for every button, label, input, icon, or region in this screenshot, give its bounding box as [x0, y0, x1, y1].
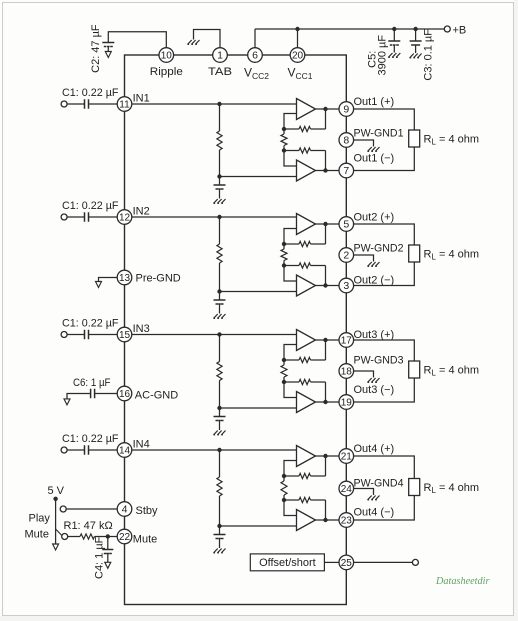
svg-text:1: 1	[217, 50, 223, 62]
ground below NFB cap (ch2)	[214, 314, 226, 318]
wire load bottom (ch4)	[354, 496, 415, 521]
capacitor NFB to ground (ch4)	[219, 526, 221, 535]
wire top amp inverting input (ch2)	[284, 229, 297, 245]
IC package outline U1	[125, 55, 347, 605]
capacitor NFB to ground (ch1)	[219, 177, 221, 186]
op-amp ch3 inverting	[297, 392, 316, 413]
wire input line (ch3)	[132, 334, 297, 336]
resistor RL load (ch3)	[409, 361, 420, 378]
svg-text:Pre-GND: Pre-GND	[136, 273, 181, 285]
junction node C3 tap	[413, 27, 417, 31]
ground arrow below switch	[53, 544, 59, 550]
wire C4 lead	[107, 537, 109, 550]
resistor RL load (ch4)	[409, 479, 420, 496]
svg-text:C1: 0.22 µF: C1: 0.22 µF	[62, 200, 119, 212]
wire C3 lead	[415, 29, 417, 41]
pin 1 TAB	[213, 48, 228, 63]
ground below NFB cap (ch3)	[214, 431, 226, 435]
wire top amp inverting input (ch3)	[284, 345, 297, 361]
junction input column (ch2)	[217, 215, 221, 219]
wire bottom amp output (ch1)	[316, 170, 340, 172]
pin 10 Ripple	[159, 48, 174, 63]
switch lever	[56, 529, 62, 535]
svg-text:24: 24	[341, 484, 353, 495]
wire top amp output (ch4)	[316, 455, 340, 457]
svg-text:3: 3	[343, 280, 349, 292]
resistor input bias (ch1)	[219, 104, 221, 131]
wire bottom amp output (ch4)	[316, 519, 340, 521]
svg-text:14: 14	[119, 446, 131, 457]
op-amp ch2 non-inverting	[297, 214, 316, 235]
wire input terminal to C1 (ch3)	[67, 334, 84, 336]
resistor feedback top (ch2)	[284, 243, 299, 245]
pin 17 Out3+	[339, 333, 354, 348]
wire feedback right top (ch1)	[325, 109, 327, 129]
pin 18 PW-GND3	[339, 364, 354, 379]
resistor divider centre (ch2)	[283, 244, 285, 249]
wire top amp output (ch3)	[316, 339, 340, 341]
junction feedback left top (ch2)	[282, 242, 286, 246]
ground arrow below C4	[105, 562, 111, 568]
junction 5V node	[53, 497, 57, 501]
wire pin 2 to ground	[354, 255, 374, 262]
svg-text:C1: 0.22 µF: C1: 0.22 µF	[62, 433, 119, 445]
capacitor C6 1uF	[90, 389, 92, 399]
op-amp ch4 non-inverting	[297, 446, 316, 467]
wire pin 24 to ground	[354, 489, 374, 496]
wire C1 to pin (ch4)	[89, 449, 118, 451]
wire pin 25 to terminal	[354, 561, 413, 563]
svg-text:Out3 (+): Out3 (+)	[354, 329, 395, 341]
wire AC-GND to C6	[95, 393, 118, 395]
svg-text:Datasheetdir: Datasheetdir	[435, 575, 490, 587]
resistor input bias (ch3)	[219, 335, 221, 362]
wire top amp output (ch2)	[316, 223, 340, 225]
resistor feedback top (ch4)	[284, 475, 299, 477]
capacitor C1 coupling (ch3)	[84, 330, 86, 340]
wire bottom amp inverting input (ch4)	[284, 500, 297, 516]
svg-text:6: 6	[252, 50, 258, 62]
svg-text:PW-GND2: PW-GND2	[354, 243, 404, 255]
svg-text:IN4: IN4	[133, 439, 150, 451]
junction bottom output (ch2)	[323, 283, 327, 287]
pin 9 Out1+	[339, 102, 354, 117]
wire pin 1 TAB to ground	[194, 30, 221, 49]
svg-text:+B: +B	[453, 25, 467, 37]
wire feedback right top (ch2)	[325, 224, 327, 244]
wire R1 to pin 22	[95, 536, 118, 538]
pin 3 Out2-	[339, 278, 354, 293]
svg-text:Mute: Mute	[133, 534, 157, 546]
wire bottom amp inverting input (ch1)	[284, 151, 297, 167]
resistor input bias (ch2)	[219, 217, 221, 244]
svg-text:3900 µF: 3900 µF	[376, 35, 388, 76]
wire pin 8 to ground	[354, 140, 374, 147]
svg-text:C4: 1 µF: C4: 1 µF	[94, 536, 106, 579]
svg-text:16: 16	[119, 389, 131, 400]
wire C6 to ground arrow	[67, 394, 91, 399]
resistor RL load (ch2)	[409, 245, 420, 262]
resistor feedback top (ch1)	[284, 128, 299, 130]
svg-text:C1: 0.22 µF: C1: 0.22 µF	[62, 87, 119, 99]
junction input column (ch3)	[217, 332, 221, 336]
svg-text:Out2 (+): Out2 (+)	[354, 212, 395, 224]
junction column bottom (ch4)	[217, 524, 221, 528]
capacitor C2 47uF	[102, 42, 114, 44]
svg-text:IN2: IN2	[133, 206, 150, 218]
wire Offset/short to pin 25	[324, 561, 339, 563]
junction feedback left bottom (ch4)	[282, 498, 286, 502]
pin 22 Mute	[117, 529, 132, 544]
wire bottom amp inverting input (ch2)	[284, 266, 297, 282]
wire top amp inverting input (ch4)	[284, 461, 297, 477]
junction input column (ch1)	[217, 102, 221, 106]
wire load top (ch3)	[354, 340, 415, 361]
switch contact Mute	[62, 534, 68, 540]
terminal offset output	[412, 559, 418, 565]
svg-text:AC-GND: AC-GND	[135, 390, 178, 402]
svg-text:17: 17	[341, 336, 353, 347]
svg-text:Out1 (−): Out1 (−)	[354, 153, 395, 165]
wire Play contact to pin 4	[66, 508, 117, 510]
junction node C5 tap	[392, 27, 396, 31]
op-amp ch4 inverting	[297, 510, 316, 531]
wire C1 to pin (ch2)	[89, 216, 118, 218]
svg-text:23: 23	[341, 516, 353, 527]
capacitor C5 3900uF	[388, 40, 400, 42]
input terminal IN2	[61, 214, 67, 220]
wire load bottom (ch3)	[354, 378, 415, 402]
svg-text:Out2 (−): Out2 (−)	[354, 275, 395, 287]
wire load bottom (ch1)	[354, 147, 415, 171]
pin 11 IN1	[117, 97, 132, 112]
wire top amp output (ch1)	[316, 108, 340, 110]
wire load top (ch4)	[354, 456, 415, 479]
junction input column (ch4)	[217, 448, 221, 452]
svg-text:4: 4	[122, 504, 128, 516]
wire column to inverting amp input (ch2)	[220, 291, 297, 293]
svg-text:Offset/short: Offset/short	[259, 557, 316, 569]
wire input terminal to C1 (ch2)	[67, 216, 84, 218]
svg-text:25: 25	[341, 558, 353, 569]
wire load bottom (ch2)	[354, 262, 415, 286]
junction bottom output (ch1)	[323, 168, 327, 172]
svg-text:13: 13	[119, 273, 131, 284]
junction top output (ch2)	[323, 222, 327, 226]
svg-text:11: 11	[119, 100, 130, 111]
wire input terminal to C1 (ch1)	[67, 103, 84, 105]
wire column to inverting amp input (ch3)	[220, 407, 297, 409]
switch contact Play	[60, 506, 66, 512]
svg-text:Mute: Mute	[25, 529, 49, 541]
wire +B rail	[255, 28, 444, 30]
op-amp ch2 inverting	[297, 275, 316, 296]
wire input line (ch4)	[132, 449, 297, 451]
ground arrow below C2	[105, 52, 111, 58]
resistor input bias (ch4)	[219, 450, 221, 477]
pin 6 Vcc2	[248, 48, 263, 63]
ground at PW-GND2	[368, 262, 380, 266]
wire feedback right top (ch4)	[325, 456, 327, 476]
resistor feedback bottom (ch1)	[284, 150, 299, 152]
wire Vcc1 pin 20 to rail	[297, 29, 299, 48]
wire C1 to pin (ch1)	[89, 103, 118, 105]
resistor R1 47k	[80, 534, 95, 539]
wire column to inverting amp input (ch4)	[220, 525, 297, 527]
pin 23 Out4-	[339, 513, 354, 528]
svg-text:Stby: Stby	[136, 505, 159, 517]
junction feedback left bottom (ch3)	[282, 380, 286, 384]
svg-text:Out4 (−): Out4 (−)	[354, 507, 395, 519]
wire input line (ch1)	[132, 103, 297, 105]
ground below C5	[388, 53, 400, 57]
ground below NFB cap (ch1)	[214, 199, 226, 203]
input terminal IN3	[61, 332, 67, 338]
svg-text:IN1: IN1	[133, 93, 150, 105]
ground arrow at Pre-GND	[96, 282, 102, 288]
ground arrow at C6	[64, 399, 70, 405]
pin 13 Pre-GND	[117, 270, 132, 285]
wire C5 lead	[393, 29, 395, 41]
svg-text:22: 22	[119, 532, 131, 543]
ground at PW-GND4	[368, 496, 380, 500]
svg-text:PW-GND4: PW-GND4	[354, 478, 404, 490]
svg-text:18: 18	[341, 367, 353, 378]
wire top amp inverting input (ch1)	[284, 114, 297, 130]
resistor divider centre (ch1)	[283, 129, 285, 134]
junction top output (ch4)	[323, 454, 327, 458]
wire C1 to pin (ch3)	[89, 334, 118, 336]
capacitor C4 1uF	[102, 549, 113, 551]
svg-text:C3: 0.1 µF: C3: 0.1 µF	[422, 29, 434, 81]
resistor RL load (ch1)	[409, 130, 420, 147]
svg-text:15: 15	[119, 330, 131, 341]
svg-text:Out1 (+): Out1 (+)	[354, 96, 395, 108]
pin 4 Stby	[117, 502, 132, 517]
junction top output (ch3)	[323, 338, 327, 342]
wire Mute contact to R1	[68, 536, 80, 538]
ground below NFB cap (ch4)	[214, 549, 226, 553]
svg-text:C2: 47 µF: C2: 47 µF	[90, 24, 102, 73]
junction C4 tap	[106, 534, 110, 538]
junction column bottom (ch2)	[217, 289, 221, 293]
svg-text:C6: 1 µF: C6: 1 µF	[73, 377, 111, 389]
svg-text:20: 20	[292, 51, 304, 62]
terminal +B	[444, 26, 450, 32]
svg-text:9: 9	[343, 104, 349, 116]
svg-text:5: 5	[343, 219, 349, 231]
svg-text:PW-GND3: PW-GND3	[354, 354, 404, 366]
junction feedback left top (ch1)	[282, 127, 286, 131]
ground at PW-GND3	[368, 378, 380, 382]
wire 5V common	[55, 499, 57, 544]
capacitor C3 0.1uF	[410, 40, 422, 42]
junction bottom output (ch4)	[323, 518, 327, 522]
pin 7 Out1-	[339, 163, 354, 178]
junction above pin 20	[295, 27, 299, 31]
pin 21 Out4+	[339, 449, 354, 464]
junction bottom output (ch3)	[323, 400, 327, 404]
resistor divider centre (ch3)	[283, 360, 285, 365]
op-amp ch3 non-inverting	[297, 330, 316, 351]
junction feedback left top (ch3)	[282, 358, 286, 362]
junction column bottom (ch3)	[217, 406, 221, 410]
pin 12 IN2	[117, 210, 132, 225]
op-amp ch1 non-inverting	[297, 99, 316, 120]
wire bottom amp output (ch2)	[316, 285, 340, 287]
svg-text:7: 7	[343, 165, 349, 177]
resistor feedback bottom (ch2)	[284, 265, 299, 267]
svg-text:C1: 0.22 µF: C1: 0.22 µF	[62, 318, 119, 330]
wire input terminal to C1 (ch4)	[67, 449, 84, 451]
wire pin 10 to C2	[108, 32, 166, 48]
junction top output (ch1)	[323, 107, 327, 111]
pin 2 PW-GND2	[339, 248, 354, 263]
capacitor C1 coupling (ch2)	[84, 212, 86, 222]
wire feedback right top (ch3)	[325, 340, 327, 360]
input terminal IN4	[61, 447, 67, 453]
svg-text:PW-GND1: PW-GND1	[354, 128, 404, 140]
op-amp ch1 inverting	[297, 160, 316, 181]
junction column bottom (ch1)	[217, 174, 221, 178]
wire pin 18 to ground	[354, 371, 374, 378]
capacitor C1 coupling (ch1)	[84, 99, 86, 109]
wire feedback right bottom (ch3)	[325, 382, 327, 402]
resistor feedback bottom (ch4)	[284, 499, 299, 501]
svg-text:8: 8	[343, 135, 349, 147]
block Offset/short	[250, 554, 324, 571]
wire bottom amp output (ch3)	[316, 401, 340, 403]
svg-text:Out3 (−): Out3 (−)	[354, 384, 395, 396]
capacitor C1 coupling (ch4)	[84, 445, 86, 455]
resistor divider centre (ch4)	[283, 476, 285, 481]
pin 5 Out2+	[339, 217, 354, 232]
pin 15 IN3	[117, 327, 132, 342]
wire Vcc2 pin 6 to rail	[254, 29, 256, 48]
wire load top (ch2)	[354, 224, 415, 245]
capacitor NFB to ground (ch3)	[219, 408, 221, 417]
svg-text:21: 21	[341, 452, 353, 463]
ground below C3	[410, 54, 422, 58]
capacitor NFB to ground (ch2)	[219, 292, 221, 301]
junction feedback left bottom (ch2)	[282, 263, 286, 267]
pin 24 PW-GND4	[339, 481, 354, 496]
svg-text:2: 2	[343, 250, 349, 262]
wire pin 13 Pre-GND to ground	[99, 278, 118, 282]
junction feedback left bottom (ch1)	[282, 148, 286, 152]
junction feedback left top (ch4)	[282, 474, 286, 478]
input terminal IN1	[61, 101, 67, 107]
svg-text:Out4 (+): Out4 (+)	[354, 443, 395, 455]
svg-text:Play: Play	[29, 513, 51, 525]
wire bottom amp inverting input (ch3)	[284, 382, 297, 398]
pin 25 Offset/short	[339, 555, 354, 570]
wire feedback right bottom (ch1)	[325, 151, 327, 171]
svg-text:12: 12	[119, 213, 131, 224]
svg-text:5 V: 5 V	[48, 485, 65, 497]
svg-text:Ripple: Ripple	[150, 66, 183, 78]
wire load top (ch1)	[354, 109, 415, 130]
wire column to inverting amp input (ch1)	[220, 176, 297, 178]
pin 8 PW-GND1	[339, 133, 354, 148]
resistor feedback top (ch3)	[284, 359, 299, 361]
svg-text:IN3: IN3	[133, 323, 150, 335]
pin 14 IN4	[117, 443, 132, 458]
resistor feedback bottom (ch3)	[284, 381, 299, 383]
pin 20 Vcc1	[290, 48, 305, 63]
ground at PW-GND1	[368, 147, 380, 151]
ground at TAB	[188, 40, 200, 44]
wire input line (ch2)	[132, 216, 297, 218]
svg-text:R1: 47 kΩ: R1: 47 kΩ	[64, 520, 113, 532]
svg-text:TAB: TAB	[208, 66, 232, 78]
wire feedback right bottom (ch4)	[325, 500, 327, 520]
svg-text:19: 19	[341, 398, 353, 409]
wire feedback right bottom (ch2)	[325, 266, 327, 286]
svg-text:10: 10	[161, 51, 173, 62]
pin 16 AC-GND	[117, 386, 132, 401]
pin 19 Out3-	[339, 395, 354, 410]
